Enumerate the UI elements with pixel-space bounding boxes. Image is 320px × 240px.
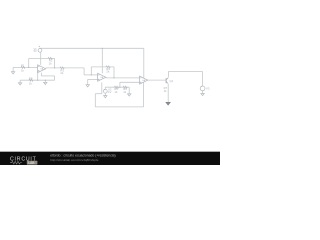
svg-text:1V: 1V	[108, 90, 112, 94]
svg-text:http://circuitlab.com/c/cv3q8f: http://circuitlab.com/c/cv3q8f/1/kpfe	[50, 158, 99, 162]
svg-text:R8: R8	[29, 77, 33, 81]
svg-text:V3: V3	[206, 86, 210, 90]
svg-text:OA: OA	[142, 79, 146, 82]
svg-text:OA: OA	[100, 76, 104, 79]
svg-text:LAB: LAB	[28, 161, 34, 165]
svg-text:5V: 5V	[34, 50, 37, 53]
svg-text:1k: 1k	[21, 68, 25, 72]
svg-text:R1: R1	[21, 64, 25, 68]
svg-text:Q1: Q1	[170, 79, 174, 83]
svg-text:OA: OA	[40, 68, 44, 71]
svg-text:eltordo : circuito ecuacionado: eltordo : circuito ecuacionado (+resiste…	[50, 154, 116, 158]
svg-text:1k: 1k	[29, 81, 33, 85]
